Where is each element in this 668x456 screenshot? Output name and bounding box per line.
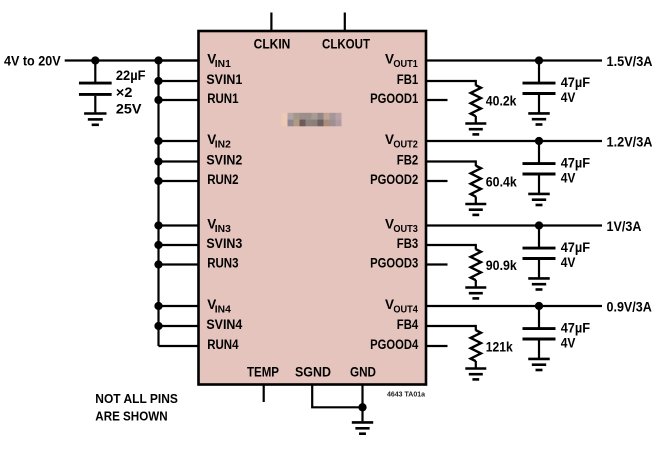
wire VIN2: [159, 140, 199, 142]
wire VIN4: [159, 305, 199, 307]
svg-text:FB4: FB4: [397, 317, 419, 332]
wire SVIN3: [159, 244, 199, 246]
pin label VIN3: [207, 216, 231, 235]
svg-text:0.9V/3A: 0.9V/3A: [607, 299, 652, 315]
pin label VIN1: [207, 51, 231, 70]
junction bus SVIN2: [154, 157, 162, 165]
ground COUT4: [528, 359, 550, 370]
wire FB3: [426, 244, 476, 250]
wire COUT1 to ground: [538, 95, 540, 113]
wire VOUT2: [426, 140, 602, 142]
wire FB1: [426, 80, 476, 86]
junction bus RUN1: [154, 96, 162, 104]
junction input cap: [91, 56, 99, 64]
capacitor COUT4 47uF: [523, 306, 556, 339]
svg-text:22µF: 22µF: [116, 67, 146, 83]
junction bus VIN1: [154, 56, 162, 64]
wire R2 to ground: [475, 197, 477, 205]
svg-text:4V: 4V: [561, 89, 576, 105]
junction VOUT3 cap: [535, 221, 543, 229]
wire FB2: [426, 160, 476, 166]
resistor R1 40.2k: [471, 85, 481, 116]
svg-text:OUT3: OUT3: [393, 224, 418, 235]
note NOT ALL PINS ARE SHOWN: [95, 392, 178, 423]
wire RUN4: [159, 345, 199, 347]
wire VOUT1: [426, 59, 602, 61]
junction VOUT2 cap: [535, 137, 543, 145]
svg-text:SVIN1: SVIN1: [206, 72, 242, 87]
svg-text:1.2V/3A: 1.2V/3A: [607, 134, 653, 150]
wire input VIN: [65, 59, 199, 61]
svg-text:4V: 4V: [561, 254, 576, 270]
svg-text:PGOOD2: PGOOD2: [370, 172, 418, 187]
svg-text:RUN1: RUN1: [207, 91, 239, 106]
pin stub CLKIN: [270, 13, 272, 32]
svg-text:FB3: FB3: [397, 236, 419, 251]
svg-text:OUT1: OUT1: [393, 59, 418, 70]
wire GND: [361, 385, 363, 422]
capacitor COUT3 47uF: [523, 226, 556, 259]
svg-text:CLKIN: CLKIN: [254, 37, 291, 52]
svg-text:IN3: IN3: [215, 224, 231, 235]
wire COUT4 to ground: [538, 340, 540, 358]
wire VIN3: [159, 224, 199, 226]
svg-text:RUN2: RUN2: [207, 172, 238, 187]
pin label VOUT2: [385, 132, 418, 151]
junction bus RUN2: [154, 177, 162, 185]
wire VOUT3: [426, 224, 602, 226]
wire VIN1: [159, 59, 199, 61]
ground R4: [465, 369, 486, 380]
resistor R3 90.9k: [471, 249, 481, 280]
svg-text:RUN3: RUN3: [207, 255, 239, 270]
svg-text:1V/3A: 1V/3A: [607, 218, 642, 234]
capacitor COUT2 47uF: [523, 141, 556, 174]
wire RUN2: [159, 180, 199, 182]
svg-text:×2: ×2: [116, 84, 133, 100]
svg-text:1.5V/3A: 1.5V/3A: [607, 53, 653, 69]
svg-text:FB2: FB2: [397, 152, 418, 167]
ground R2: [465, 204, 486, 215]
pin stub PGOOD4: [426, 345, 448, 347]
svg-text:60.4k: 60.4k: [486, 174, 517, 190]
svg-text:90.9k: 90.9k: [486, 257, 517, 273]
junction bus SVIN4: [154, 322, 162, 330]
junction bus RUN3: [154, 260, 162, 268]
wire R1 to ground: [475, 116, 477, 124]
junction VOUT4 cap: [535, 302, 543, 310]
wire VOUT4: [426, 305, 602, 307]
pin label VOUT3: [385, 216, 418, 235]
ground GND: [352, 422, 373, 433]
svg-text:47µF: 47µF: [561, 154, 591, 170]
wire SVIN4: [159, 325, 199, 327]
svg-text:OUT2: OUT2: [393, 140, 418, 151]
resistor R4 121k: [471, 330, 481, 361]
svg-text:PGOOD4: PGOOD4: [370, 337, 419, 352]
capacitor CIN 22uF x2: [79, 61, 112, 95]
svg-text:NOT ALL PINS: NOT ALL PINS: [95, 392, 178, 406]
pin stub PGOOD3: [426, 263, 448, 265]
pin stub CLKOUT: [344, 13, 346, 32]
pin stub TEMP: [263, 385, 265, 403]
junction SGND/GND: [358, 403, 366, 411]
ground R3: [465, 288, 486, 299]
wire COUT3 to ground: [538, 260, 540, 278]
svg-text:40.2k: 40.2k: [486, 93, 517, 109]
svg-text:OUT4: OUT4: [393, 305, 418, 316]
junction bus SVIN1: [154, 77, 162, 85]
svg-text:IN4: IN4: [215, 305, 231, 316]
ground R1: [465, 124, 486, 135]
svg-text:4V: 4V: [561, 335, 576, 351]
svg-text:25V: 25V: [116, 101, 142, 117]
svg-text:4V to 20V: 4V to 20V: [4, 53, 61, 69]
svg-text:ARE SHOWN: ARE SHOWN: [95, 409, 167, 423]
junction VOUT1 cap: [535, 56, 543, 64]
pixelated part-number blur inside IC: [282, 113, 342, 127]
ground COUT1: [528, 113, 550, 124]
wire COUT2 to ground: [538, 175, 540, 193]
svg-text:4643 TA01a: 4643 TA01a: [387, 390, 426, 399]
svg-text:47µF: 47µF: [561, 74, 591, 90]
resistor R2 60.4k: [471, 166, 481, 197]
svg-text:CLKOUT: CLKOUT: [322, 37, 371, 52]
svg-text:SVIN2: SVIN2: [206, 152, 242, 167]
wire R3 to ground: [475, 280, 477, 288]
junction bus VIN4: [154, 302, 162, 310]
svg-text:SVIN3: SVIN3: [206, 236, 242, 251]
wire CIN to ground: [94, 96, 96, 113]
wire RUN3: [159, 263, 199, 265]
pin label VOUT1: [385, 51, 418, 70]
wire RUN1: [159, 99, 199, 101]
pin stub PGOOD1: [426, 99, 448, 101]
svg-text:47µF: 47µF: [561, 239, 591, 255]
svg-text:FB1: FB1: [397, 72, 419, 87]
pin stub PGOOD2: [426, 180, 448, 182]
svg-text:IN2: IN2: [215, 140, 231, 151]
svg-text:121k: 121k: [486, 339, 513, 355]
svg-text:4V: 4V: [561, 170, 576, 186]
ground COUT3: [528, 278, 550, 289]
svg-text:PGOOD1: PGOOD1: [370, 91, 419, 106]
pin label VOUT4: [385, 297, 418, 316]
capacitor COUT1 47uF: [523, 61, 556, 94]
wire SVIN1: [159, 80, 199, 82]
junction bus VIN2: [154, 137, 162, 145]
svg-text:TEMP: TEMP: [247, 365, 279, 380]
svg-text:RUN4: RUN4: [207, 337, 239, 352]
junction bus SVIN3: [154, 241, 162, 249]
IC U1 (µModule regulator, part number pixelated): [199, 31, 427, 385]
svg-text:IN1: IN1: [215, 59, 231, 70]
wire FB4: [426, 325, 476, 331]
pin label VIN4: [207, 297, 231, 316]
pin label VIN2: [207, 132, 231, 151]
svg-text:SGND: SGND: [295, 365, 331, 380]
svg-text:SVIN4: SVIN4: [206, 317, 242, 332]
bus wire VIN vertical: [157, 61, 159, 347]
svg-text:PGOOD3: PGOOD3: [370, 255, 419, 270]
junction bus VIN3: [154, 221, 162, 229]
svg-text:47µF: 47µF: [561, 319, 591, 335]
svg-text:GND: GND: [350, 365, 376, 380]
wire SVIN2: [159, 160, 199, 162]
ground COUT2: [528, 194, 550, 205]
wire SGND: [311, 385, 362, 408]
ground CIN: [84, 114, 106, 125]
wire R4 to ground: [475, 361, 477, 369]
